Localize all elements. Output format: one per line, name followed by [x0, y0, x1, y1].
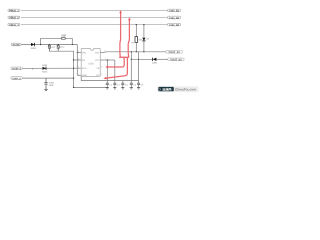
svg-text:1: 1	[78, 50, 79, 53]
node junction row B join	[73, 77, 74, 78]
capacitor C3	[113, 83, 120, 87]
svg-text:〉迅维网: 〉迅维网	[159, 87, 171, 91]
svg-text:VOUT_S1: VOUT_S1	[168, 51, 180, 54]
svg-text:VBUS_2: VBUS_2	[9, 17, 19, 20]
op-amp U301 IC body	[81, 49, 100, 77]
svg-text:5: 5	[101, 73, 102, 76]
svg-text:C5: C5	[133, 84, 136, 87]
svg-text:PC2: PC2	[60, 46, 65, 49]
diode D303	[42, 64, 48, 74]
wire loop left vertical	[40, 38, 42, 44]
svg-text:VIN: VIN	[82, 51, 86, 54]
watermark logo box	[158, 87, 173, 91]
svg-text:D301: D301	[31, 47, 37, 50]
wire rail 3	[21, 24, 168, 26]
svg-text:D4: D4	[147, 38, 151, 41]
wire red drop 1	[107, 57, 124, 67]
ground C4	[121, 88, 124, 89]
wire col x138.5 row1-row2-cap5	[138, 52, 140, 83]
node red arrowhead A	[119, 10, 122, 13]
thermistor PC2	[57, 45, 65, 52]
svg-text:6: 6	[101, 66, 102, 69]
wire red drop 2	[106, 57, 127, 78]
connector label left 2	[8, 16, 20, 20]
IC pin stubs left	[74, 53, 82, 76]
svg-text:10K: 10K	[138, 39, 142, 42]
IC pin labels left	[82, 51, 87, 77]
connector label left 3	[8, 23, 20, 27]
ground C2	[106, 88, 109, 89]
node junction bottom	[73, 87, 74, 88]
wire bus below IC	[81, 76, 138, 80]
resistor R302 on loop top	[61, 34, 67, 39]
capacitor C5	[130, 83, 137, 87]
svg-text:D303: D303	[42, 64, 48, 67]
wire bottom long	[74, 87, 108, 89]
ground C3	[113, 88, 116, 89]
IC pin stubs right	[100, 53, 104, 61]
svg-text:PG: PG	[96, 74, 99, 77]
node red arrowhead drop2	[103, 77, 106, 80]
node red arrowhead B	[128, 17, 131, 20]
node junction row1 x131	[131, 51, 132, 52]
wire lower-left return	[49, 51, 73, 87]
capacitor C6	[137, 83, 144, 87]
wire feed vertical to IC pins	[76, 45, 78, 76]
svg-text:CHG_B2: CHG_B2	[169, 17, 180, 20]
svg-text:VO2: VO2	[95, 59, 100, 62]
connector label left mid	[11, 43, 21, 46]
svg-text:CHG_B1: CHG_B1	[169, 10, 180, 13]
svg-text:ACIN_5: ACIN_5	[12, 68, 22, 71]
ground C6	[137, 88, 140, 89]
svg-text:C2: C2	[109, 84, 112, 87]
wire col R to row1	[135, 25, 137, 37]
svg-text:10uF: 10uF	[49, 84, 55, 87]
node junction hang2	[58, 44, 59, 45]
connector label right 1	[168, 9, 181, 13]
svg-text:C3: C3	[117, 84, 120, 87]
node junction rowA-return	[73, 68, 74, 69]
wire pin2 row right	[104, 59, 115, 61]
svg-text:PBUS_1: PBUS_1	[9, 10, 19, 13]
svg-text:C6: C6	[141, 84, 144, 87]
svg-text:VBUS_3: VBUS_3	[9, 24, 19, 27]
wire row B	[23, 77, 74, 79]
resistor R310	[132, 37, 143, 52]
svg-text:PC1: PC1	[51, 46, 56, 49]
wire col cap3	[122, 81, 124, 84]
svg-text:D305: D305	[152, 62, 158, 65]
node red arrowhead drop1	[105, 66, 108, 69]
wire red annotation B	[128, 19, 129, 57]
capacitor C4	[121, 83, 128, 87]
node junction loop left	[40, 44, 41, 45]
connector label right mid 2	[168, 58, 184, 62]
diode D301	[31, 43, 37, 50]
node junction rail3 R	[136, 24, 137, 25]
svg-text:C4: C4	[125, 84, 128, 87]
wire rail 2	[21, 17, 168, 19]
wire col x131 row1-row2-cap4	[130, 52, 132, 83]
svg-text:ChinaFix.com: ChinaFix.com	[175, 88, 196, 92]
IC pin labels right	[95, 51, 100, 77]
ground C5	[130, 88, 133, 89]
connector label right 2	[168, 16, 181, 20]
wire loop top	[41, 37, 73, 39]
capacitor C2	[106, 83, 113, 87]
wire red annotation A	[119, 12, 122, 57]
wire col cap1	[106, 60, 108, 83]
wire loop right vertical	[71, 38, 73, 44]
ground C301	[44, 89, 48, 90]
node junction pin1 feed	[77, 52, 78, 53]
thermistor PC1	[48, 45, 56, 52]
svg-text:VOUT_S2: VOUT_S2	[170, 59, 182, 62]
wire pin1 row right	[104, 51, 166, 54]
svg-text:VO1: VO1	[95, 51, 100, 54]
connector label right mid 1	[166, 51, 183, 55]
diode D305 horizontal	[152, 58, 168, 65]
node junction row2 x138.5	[138, 59, 139, 60]
node junction row1 D2col	[143, 51, 144, 52]
wire rail 1	[21, 9, 168, 11]
svg-text:EN: EN	[82, 59, 85, 62]
connector label right 3	[168, 23, 181, 27]
capacitor C301	[44, 78, 54, 89]
node junction cap1 top	[107, 59, 108, 60]
diode D304 vertical	[142, 38, 150, 52]
wire row2 to diode and pill	[131, 58, 152, 60]
svg-text:GND_6: GND_6	[12, 77, 21, 80]
node junction row1 R	[136, 51, 137, 52]
svg-text:DCIN1: DCIN1	[13, 44, 21, 47]
svg-text:R1: R1	[132, 41, 136, 44]
svg-text:SS14: SS14	[42, 71, 48, 74]
svg-text:2: 2	[78, 58, 79, 61]
IC pin numbers	[78, 50, 106, 76]
wire red bar	[119, 56, 129, 58]
connector label left row B	[11, 77, 22, 81]
wire col cap2	[114, 60, 116, 83]
svg-text:4: 4	[78, 73, 79, 76]
node junction rail3 D2	[143, 24, 144, 25]
svg-text:CHG_B3: CHG_B3	[169, 24, 180, 27]
svg-text:U301: U301	[88, 63, 95, 66]
connector label left 1	[8, 9, 20, 13]
wire main left row	[21, 44, 77, 46]
wire col D2 from rail3	[143, 25, 145, 37]
node junction row2 x131	[131, 59, 132, 60]
connector label left row A	[11, 67, 22, 71]
svg-text:GND: GND	[82, 74, 87, 77]
svg-text:VDD: VDD	[82, 67, 87, 70]
wire row A	[23, 67, 82, 69]
node junction row A tick	[32, 68, 34, 69]
node junction loop right	[72, 44, 73, 45]
node junction hang1	[49, 44, 50, 45]
svg-text:3: 3	[78, 66, 79, 69]
watermark background	[157, 86, 198, 92]
